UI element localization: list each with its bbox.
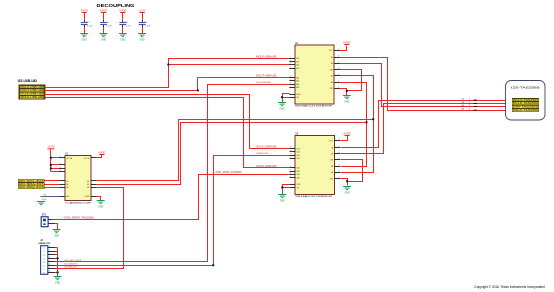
net label SCLK-TAS2560 (port row): [512, 102, 539, 105]
power KVDD at U4: [343, 41, 350, 44]
svg-text:DOUT-USB-U82: DOUT-USB-U82: [256, 75, 277, 78]
pin U3 EN pin: [59, 196, 65, 198]
svg-text:GND: GND: [54, 235, 59, 237]
svg-text:KVDD: KVDD: [98, 151, 105, 154]
wire MCLK-USB-U82 to U4 A1: [45, 59, 290, 88]
svg-text:VCC: VCC: [329, 141, 334, 143]
junction U5 GND tie: [281, 186, 283, 188]
svg-text:KVDD: KVDD: [100, 9, 107, 12]
pin U3 left pin 3: [59, 168, 65, 170]
svg-text:GND: GND: [140, 39, 145, 41]
wire J1 pin 7 tie: [56, 268, 58, 270]
pin U3 left pin 4: [59, 171, 65, 173]
svg-text:6: 6: [49, 264, 50, 266]
wire U5 DIR2 to GND: [341, 179, 348, 186]
svg-text:4: 4: [338, 56, 339, 58]
wire C18 bottom lead: [142, 28, 144, 34]
wire +3.3V stub 157.8: [51, 157, 60, 159]
net label DOUT-USB-U82 (port row): [20, 89, 44, 92]
wire J1 pin 3 tie: [56, 254, 58, 256]
capacitor C16 0.1uF: [100, 20, 112, 28]
svg-text:0.1uF: 0.1uF: [126, 26, 132, 28]
svg-text:4: 4: [60, 170, 61, 172]
wire C17 top lead: [122, 13, 124, 20]
svg-text:TCA9406DCUR: TCA9406DCUR: [65, 201, 92, 204]
svg-text:1A1: 1A1: [296, 148, 299, 151]
wire C15 top lead: [84, 13, 86, 20]
svg-text:10.0k: 10.0k: [42, 199, 47, 201]
svg-text:5: 5: [290, 154, 291, 156]
svg-text:2A1: 2A1: [296, 154, 299, 157]
svg-text:3A1: 3A1: [296, 167, 299, 170]
wire C18 top lead: [142, 13, 144, 20]
power KVDD for C17: [119, 9, 126, 12]
ground GND under C15: [80, 34, 88, 42]
svg-text:GND: GND: [101, 39, 106, 41]
svg-text:4A2: 4A2: [296, 176, 299, 179]
svg-text:8: 8: [49, 271, 50, 273]
svg-text:3: 3: [290, 82, 291, 84]
wire MCLK-USB-U82 to U4 A3: [169, 64, 290, 66]
svg-text:A2: A2: [66, 183, 68, 186]
wire U3 EN to gnd: [41, 196, 49, 198]
wire U4 4B down to U5 3B: [340, 83, 367, 167]
svg-text:0.1uF: 0.1uF: [145, 26, 151, 28]
wire U4 DIR2 to GND: [340, 89, 347, 96]
ground GND under R8: [37, 202, 45, 205]
svg-text:3A2: 3A2: [296, 80, 299, 83]
wire U4 VCC to KVDD: [340, 46, 347, 51]
junction junction U3-A2 line: [365, 121, 367, 123]
svg-text:GND: GND: [296, 94, 301, 96]
wire U4 DIR1 to GND net: [340, 70, 362, 91]
testpoint JT1: [41, 215, 48, 227]
svg-text:WCLK-USB-U82: WCLK-USB-U82: [20, 96, 44, 99]
svg-text:3: 3: [469, 105, 470, 107]
svg-text:B2: B2: [87, 184, 89, 186]
net label I2C-SCL-3V3 at U3: [18, 179, 44, 182]
capacitor C17 0.1uF: [119, 20, 131, 28]
ground GND right of U4: [343, 96, 351, 104]
connector J1 STAND-OFF: [38, 240, 51, 274]
svg-text:4A1: 4A1: [296, 83, 299, 86]
power KVDD at U5: [344, 132, 351, 135]
pin flag TAS row 4: [461, 108, 477, 111]
svg-text:VCCA: VCCA: [66, 157, 72, 160]
wire C17 bottom lead: [122, 28, 124, 34]
svg-text:7: 7: [290, 66, 291, 68]
svg-text:DVD_SPKR_TAS2560: DVD_SPKR_TAS2560: [216, 171, 243, 174]
pin U3 VCCB pin: [91, 157, 97, 159]
svg-text:GND: GND: [55, 282, 60, 284]
wire U4 2B to TAS2560 row3: [340, 64, 513, 107]
wire U5 2B to TAS2560 row2: [341, 104, 513, 154]
svg-text:2: 2: [338, 80, 339, 82]
svg-text:5: 5: [49, 260, 50, 262]
ground GND right of U3: [97, 201, 105, 209]
wire DVD_SPKR_TAS2560 from JT1 to U5: [53, 175, 290, 220]
svg-text:2: 2: [469, 102, 470, 104]
wire I2C-SCL-3V3 J1 to U4: [58, 85, 290, 262]
power +3.3V at U3: [47, 145, 54, 149]
wire J1 ground rail: [57, 248, 59, 277]
ground GND under C18: [138, 34, 146, 42]
svg-text:STAND-OFF: STAND-OFF: [38, 242, 51, 245]
svg-text:7: 7: [49, 267, 50, 269]
wire I2C-IRQ-3V3 wire to U3: [45, 187, 60, 189]
svg-text:I2S-TAS2560: I2S-TAS2560: [511, 86, 540, 90]
pin flag TAS row 3: [461, 104, 477, 107]
svg-text:3: 3: [290, 173, 291, 175]
pin JT1 pin 1: [48, 219, 53, 221]
svg-text:1: 1: [60, 156, 61, 158]
svg-text:2A2: 2A2: [296, 157, 299, 160]
wire U4 3B down to U5 4B: [340, 76, 374, 173]
svg-text:EN: EN: [66, 196, 69, 198]
pin U3 left pin 2: [59, 164, 65, 166]
svg-text:1: 1: [469, 99, 470, 101]
svg-text:0.1uF: 0.1uF: [87, 26, 93, 28]
power KVDD for C16: [100, 9, 107, 12]
svg-text:4: 4: [469, 109, 470, 111]
ground GND under C16: [100, 34, 108, 42]
svg-text:5: 5: [290, 63, 291, 65]
svg-text:KVDD: KVDD: [81, 9, 88, 12]
wire I2C-SDA-3V3 J1 to U5: [58, 156, 290, 266]
net label SCLK-USB-U82 (port row): [20, 92, 44, 95]
ground GND under C17: [119, 34, 127, 42]
svg-text:GND: GND: [345, 192, 350, 194]
pin J1 pin 4: [48, 258, 56, 260]
svg-text:B1: B1: [87, 181, 89, 183]
svg-text:1: 1: [290, 147, 291, 149]
wire U5 GND pin down: [283, 185, 290, 195]
net label WCLK-TAS2560 (port row): [512, 99, 539, 102]
svg-text:GND: GND: [280, 200, 285, 202]
svg-text:6: 6: [339, 152, 340, 154]
svg-text:Copyright © 2016, Texas Instru: Copyright © 2016, Texas Instruments Inco…: [474, 285, 545, 289]
net label MCLK-TAS2560 (port row): [512, 109, 539, 112]
junction U5 DIR tie: [346, 180, 348, 182]
svg-text:SCL-3V3-KVDD: SCL-3V3-KVDD: [256, 82, 271, 84]
power KVDD for C15: [81, 9, 88, 12]
ground GND left of U4: [278, 103, 286, 111]
wire C15 bottom lead: [84, 28, 86, 34]
connector I2S-USB-U82 body: [19, 85, 45, 99]
pin U3 GND pin: [91, 196, 97, 198]
svg-text:1: 1: [290, 79, 291, 81]
svg-text:+3.3V: +3.3V: [139, 9, 146, 12]
wire +3.3V rail at U3: [50, 149, 52, 172]
svg-text:6: 6: [338, 62, 339, 64]
junction +3.3V branch 157.8: [50, 157, 52, 159]
svg-text:1: 1: [49, 246, 50, 248]
wire C16 bottom lead: [103, 28, 105, 34]
pin J1 pin 5: [48, 261, 56, 263]
svg-text:5: 5: [290, 86, 291, 88]
wire U5 DIR1 to GND net: [341, 160, 363, 182]
wire U4 OE pin to GND rail: [283, 97, 290, 99]
IC U5 SN74AVC4T245RSVR: [290, 133, 340, 199]
svg-text:GND: GND: [82, 39, 87, 41]
svg-text:2: 2: [339, 139, 340, 141]
junction J1 rail 2: [56, 271, 58, 273]
wire J1 pin 5 tie: [56, 261, 58, 263]
svg-text:A3: A3: [66, 186, 68, 189]
pin flag TAS row 1: [461, 98, 477, 101]
svg-text:2: 2: [60, 163, 61, 165]
svg-text:I2C-SCL-3V3: I2C-SCL-3V3: [64, 260, 82, 262]
wire J1 pin 2 tie: [56, 251, 58, 253]
wire U5 OE pin to GND rail: [283, 187, 290, 189]
wire DOUT-USB-U82 to U4 B-in1: [45, 78, 290, 91]
wire WCLK-USB-U82 to U5 B-in1: [45, 98, 290, 168]
capacitor C15 0.1uF: [81, 20, 93, 28]
junction junction U3-A1 line: [372, 118, 374, 120]
svg-text:3: 3: [60, 167, 61, 169]
svg-text:3: 3: [290, 60, 291, 62]
svg-text:4A2: 4A2: [296, 86, 299, 89]
svg-text:0: 0: [339, 165, 340, 167]
svg-text:3A1: 3A1: [296, 76, 299, 79]
capacitor C18 0.1uF: [139, 20, 151, 28]
svg-text:MCLK-USB-U82: MCLK-USB-U82: [256, 55, 277, 58]
svg-text:MCLK-TAS2560: MCLK-TAS2560: [513, 109, 539, 112]
svg-text:2A2: 2A2: [296, 67, 299, 70]
wire +3.3V stub 168.4: [51, 168, 60, 170]
ground GND under JT1: [53, 230, 61, 238]
pin JT1 pin 2: [48, 223, 55, 225]
pin J1 pin 2: [48, 251, 56, 253]
svg-text:9: 9: [290, 76, 291, 78]
wire U5 1B to TAS2560 row1: [341, 101, 513, 148]
svg-text:VCCB: VCCB: [84, 158, 90, 160]
svg-text:4: 4: [338, 87, 339, 89]
svg-text:KVDD: KVDD: [344, 132, 351, 135]
svg-text:GND: GND: [279, 108, 284, 110]
power KVDD at U3: [98, 151, 105, 154]
svg-text:0: 0: [338, 74, 339, 76]
svg-text:GND: GND: [296, 184, 301, 186]
svg-text:9: 9: [290, 166, 291, 168]
svg-text:5: 5: [290, 176, 291, 178]
junction +3.3V branch 165.0: [50, 164, 52, 166]
svg-text:I2C-IRQ-3V3: I2C-IRQ-3V3: [19, 186, 45, 189]
svg-text:2A1: 2A1: [296, 64, 299, 67]
pin J1 pin 3: [48, 254, 56, 256]
svg-text:+3.3V: +3.3V: [47, 145, 54, 149]
wire U4 GND pin down: [283, 94, 290, 103]
svg-text:4: 4: [49, 257, 50, 259]
wire U3 VCCB to KVDD: [97, 155, 102, 158]
svg-text:KVDD: KVDD: [343, 41, 350, 44]
svg-text:1: 1: [290, 57, 291, 59]
wire J1 pin 4 tie: [56, 258, 58, 260]
svg-text:SDA-3V3-KVDD: SDA-3V3-KVDD: [256, 152, 268, 155]
wire I2C-SDA-3V3 wire to U3: [45, 184, 60, 186]
svg-text:1A2: 1A2: [296, 151, 299, 154]
svg-text:3: 3: [290, 150, 291, 152]
svg-text:3: 3: [49, 253, 50, 255]
junction U4 GND tie: [281, 96, 283, 98]
wire JT1 pin2 to ground: [55, 224, 58, 230]
svg-text:GND: GND: [120, 39, 125, 41]
junction J1 rail: [56, 257, 58, 259]
wire +3.3V stub 165.0: [51, 164, 60, 166]
svg-text:1A1: 1A1: [296, 57, 299, 60]
svg-text:I2C-SDA-3V3: I2C-SDA-3V3: [64, 262, 78, 265]
net label WCLK-USB-U82 (port row): [20, 96, 44, 99]
net label MCLK-USB-U82 (port row): [20, 86, 44, 89]
svg-text:7: 7: [290, 157, 291, 159]
connector I2S-TAS2560: [506, 81, 546, 121]
wire SCLK-USB-U82 to U5 A1: [45, 95, 290, 149]
svg-text:2: 2: [339, 171, 340, 173]
wire U3 B3 down to J1 (I2C-IRQ): [58, 188, 124, 269]
svg-text:GND: GND: [344, 101, 349, 103]
pin U3 left pin 1: [59, 157, 65, 159]
svg-text:GND: GND: [85, 196, 90, 198]
svg-text:2: 2: [338, 49, 339, 51]
svg-text:4: 4: [339, 146, 340, 148]
svg-text:2: 2: [49, 250, 50, 252]
pin flag TAS row 2: [461, 101, 477, 104]
pin U3 pin A2: [59, 184, 65, 186]
wire J1 pin 1 tie: [56, 247, 58, 249]
svg-text:SCLK-USB-U82: SCLK-USB-U82: [256, 146, 277, 149]
wire J1 pin 6 tie: [56, 265, 58, 267]
ground GND right of U5: [343, 187, 351, 195]
svg-text:SN74AVC4T245RSVR: SN74AVC4T245RSVR: [295, 105, 333, 108]
pin J1 pin 6: [48, 265, 56, 267]
svg-text:WCLK-USB-U82: WCLK-USB-U82: [256, 165, 277, 168]
svg-text:B3: B3: [87, 187, 89, 189]
svg-text:A1: A1: [66, 180, 68, 183]
pin J1 pin 1: [48, 247, 56, 249]
svg-text:GND: GND: [98, 206, 103, 208]
pin U3 pin A1: [59, 180, 65, 182]
pin J1 pin 7: [48, 268, 56, 270]
svg-text:SN74AVC4T245RSVR: SN74AVC4T245RSVR: [295, 195, 333, 198]
junction +3.3V branch 168.4: [50, 167, 52, 169]
svg-text:4: 4: [339, 177, 340, 179]
wire J1 pin 8 tie: [56, 272, 58, 274]
svg-text:8: 8: [339, 158, 340, 160]
junction I2C-SDA corner: [212, 264, 214, 266]
wire U4 1B to TAS2560 row4: [340, 58, 513, 111]
wire U3 EN wire: [49, 196, 60, 198]
wire U3 B1 east-north to U4/U5 tie: [97, 120, 374, 181]
junction DOUT corner: [197, 89, 199, 91]
ground GND under J1: [54, 277, 62, 285]
svg-text:1A2: 1A2: [296, 60, 299, 63]
svg-text:4A1: 4A1: [296, 173, 299, 176]
svg-text:VCC: VCC: [329, 50, 334, 52]
svg-text:0.1uF: 0.1uF: [106, 26, 112, 28]
wire U5 VCC to KVDD: [341, 136, 348, 141]
svg-text:3A2: 3A2: [296, 170, 299, 173]
net label I2C-SDA-3V3 at U3: [18, 183, 44, 186]
wire C16 top lead: [103, 13, 105, 20]
IC U4 SN74AVC4T245RSVR: [289, 42, 339, 108]
pin J1 pin 8: [48, 272, 56, 274]
power +3.3V for C18: [139, 9, 146, 12]
wire U3 GND wire: [97, 197, 101, 201]
wire +3.3V stub 171.8: [51, 171, 60, 173]
pin U3 pin A3: [59, 187, 65, 189]
net label DIN-TAS2560 (port row): [512, 105, 539, 108]
svg-text:KVDD: KVDD: [119, 9, 126, 12]
svg-text:1: 1: [290, 170, 291, 172]
svg-text:DECOUPLING: DECOUPLING: [97, 3, 135, 8]
svg-text:8: 8: [338, 68, 339, 70]
wire I2C-SCL-3V3 wire to U3: [45, 180, 60, 182]
svg-text:I2S-USB-U82: I2S-USB-U82: [18, 79, 38, 83]
IC U3 TCA9406DCUR: [65, 153, 92, 205]
junction U4 DIR tie: [346, 90, 348, 92]
ground GND left of U5: [278, 195, 286, 203]
net label I2C-IRQ-3V3 at U3: [18, 186, 44, 189]
junction MCLK branch: [167, 63, 169, 65]
wire U3 B2 east-north to U4/U5 tie: [97, 123, 367, 185]
svg-text:DVD_SPKR_TAS2560: DVD_SPKR_TAS2560: [64, 216, 95, 219]
svg-text:I2C-IRQ-3V3: I2C-IRQ-3V3: [64, 267, 77, 269]
